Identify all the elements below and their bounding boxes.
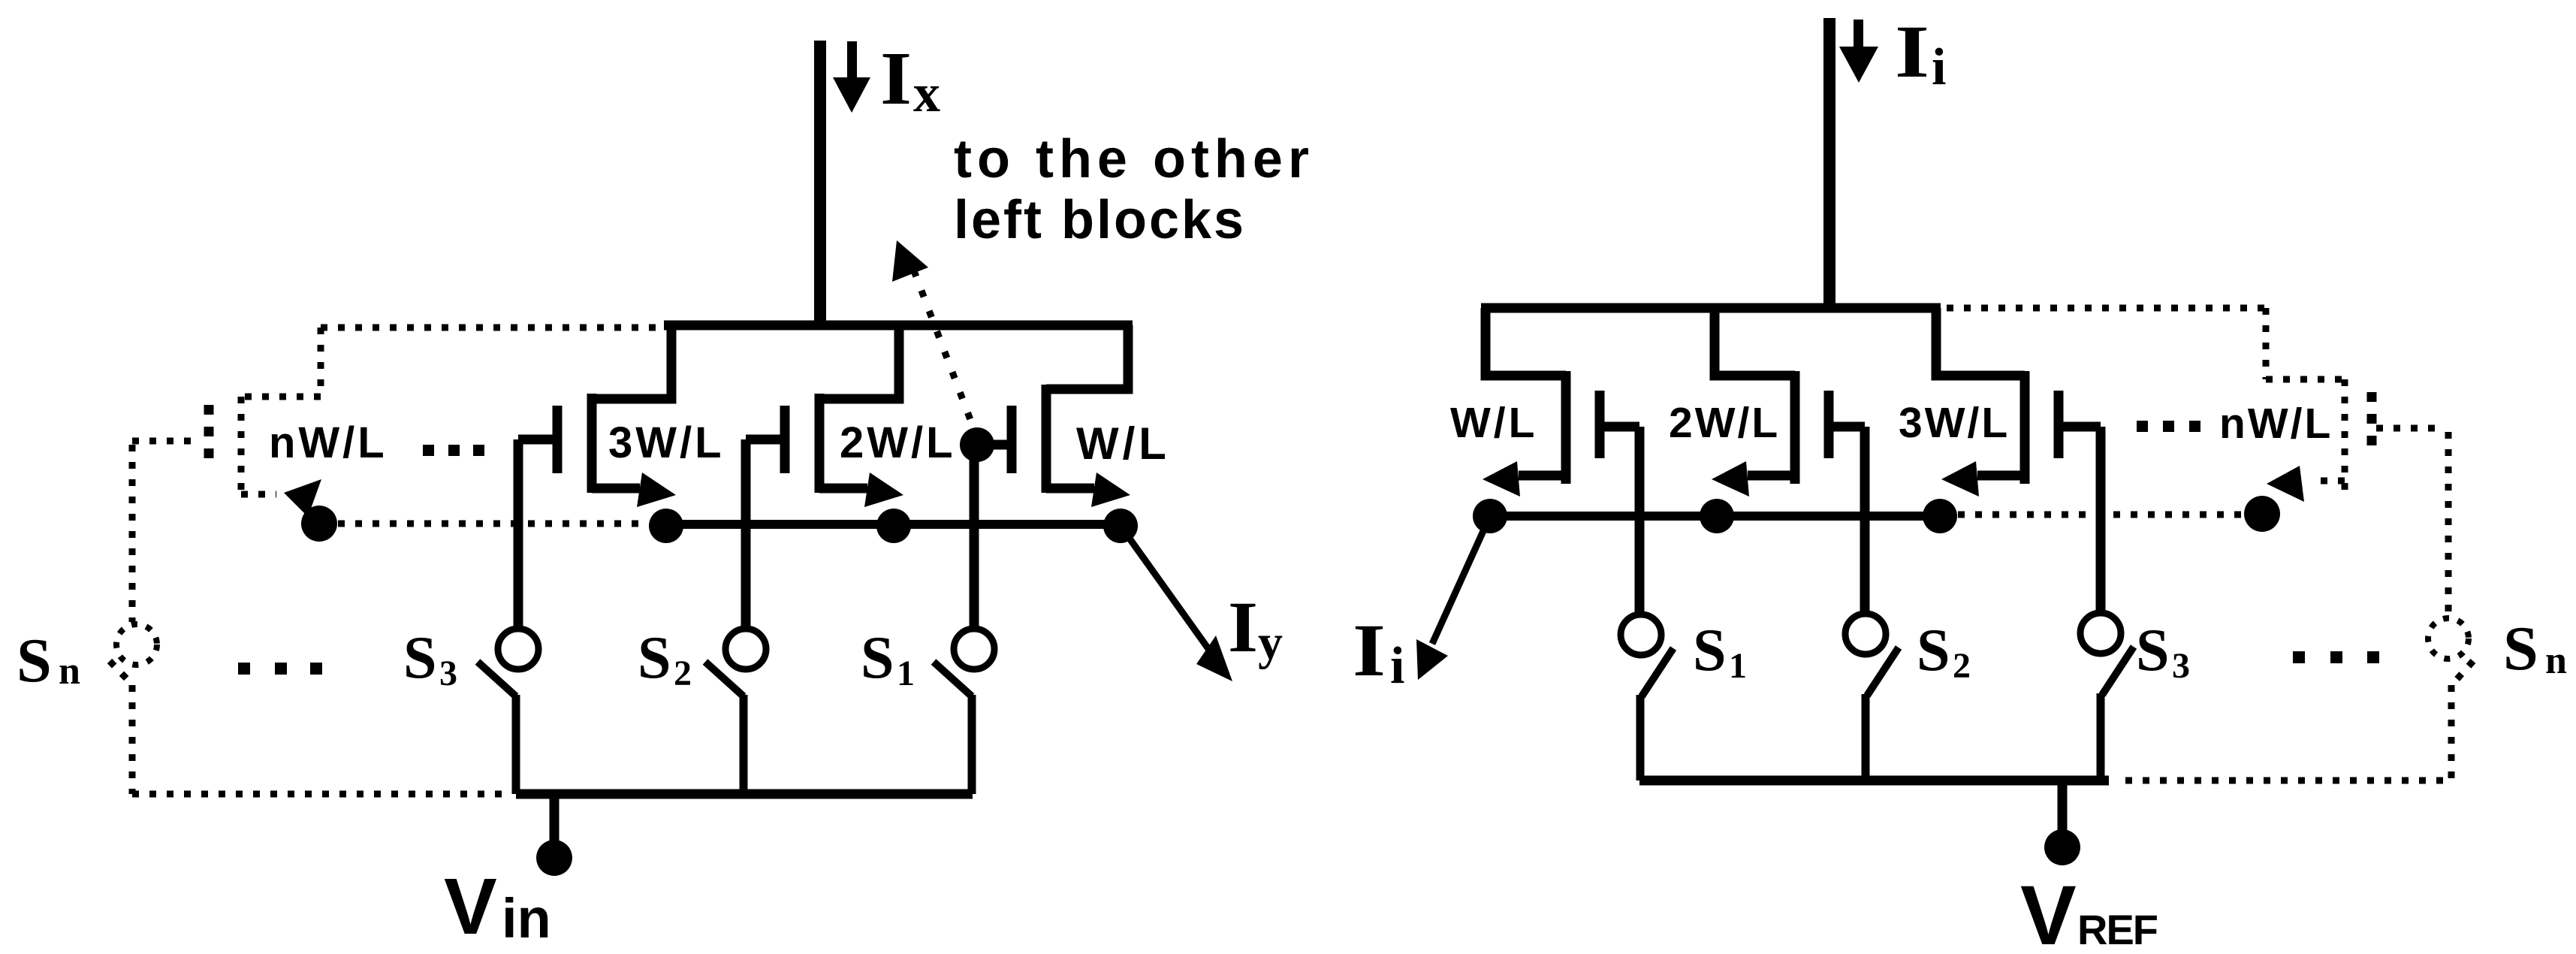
svg-text:3: 3 <box>2172 646 2190 686</box>
svg-text:REF: REF <box>2077 906 2158 953</box>
svg-text:nW/L: nW/L <box>2219 400 2333 448</box>
svg-text:V: V <box>444 862 497 951</box>
svg-text:W/L: W/L <box>1076 418 1170 469</box>
svg-text:y: y <box>1258 615 1283 670</box>
svg-text:V: V <box>2020 868 2077 954</box>
svg-text:S: S <box>861 625 894 691</box>
svg-text:2: 2 <box>1953 646 1971 686</box>
svg-text:2W/L: 2W/L <box>840 418 956 467</box>
svg-text:I: I <box>1353 608 1386 692</box>
svg-text:2W/L: 2W/L <box>1669 399 1780 447</box>
svg-text:3W/L: 3W/L <box>608 418 725 467</box>
svg-text:S: S <box>17 626 52 696</box>
svg-text:I: I <box>1895 10 1929 93</box>
svg-text:3: 3 <box>439 654 457 693</box>
svg-text:3W/L: 3W/L <box>1899 399 2010 447</box>
svg-text:x: x <box>913 63 940 123</box>
svg-text:S: S <box>403 625 437 691</box>
svg-text:W/L: W/L <box>1450 399 1537 447</box>
svg-text:S: S <box>1917 617 1950 684</box>
svg-text:1: 1 <box>1729 646 1747 686</box>
svg-text:n: n <box>59 650 80 693</box>
svg-text:in: in <box>502 887 551 949</box>
svg-text:n: n <box>2545 639 2567 682</box>
svg-text:I: I <box>1228 587 1258 667</box>
svg-text:2: 2 <box>674 654 692 693</box>
svg-text:S: S <box>1693 617 1727 684</box>
svg-text:nW/L: nW/L <box>269 418 388 467</box>
svg-text:i: i <box>1932 38 1946 96</box>
svg-text:S: S <box>2503 614 2538 684</box>
svg-text:S: S <box>2136 617 2170 684</box>
svg-text:I: I <box>880 36 912 120</box>
svg-text:S: S <box>638 625 671 691</box>
svg-text:to the other: to the other <box>954 129 1314 189</box>
svg-text:left blocks: left blocks <box>954 190 1246 250</box>
svg-text:i: i <box>1390 637 1404 695</box>
svg-text:1: 1 <box>897 654 915 693</box>
